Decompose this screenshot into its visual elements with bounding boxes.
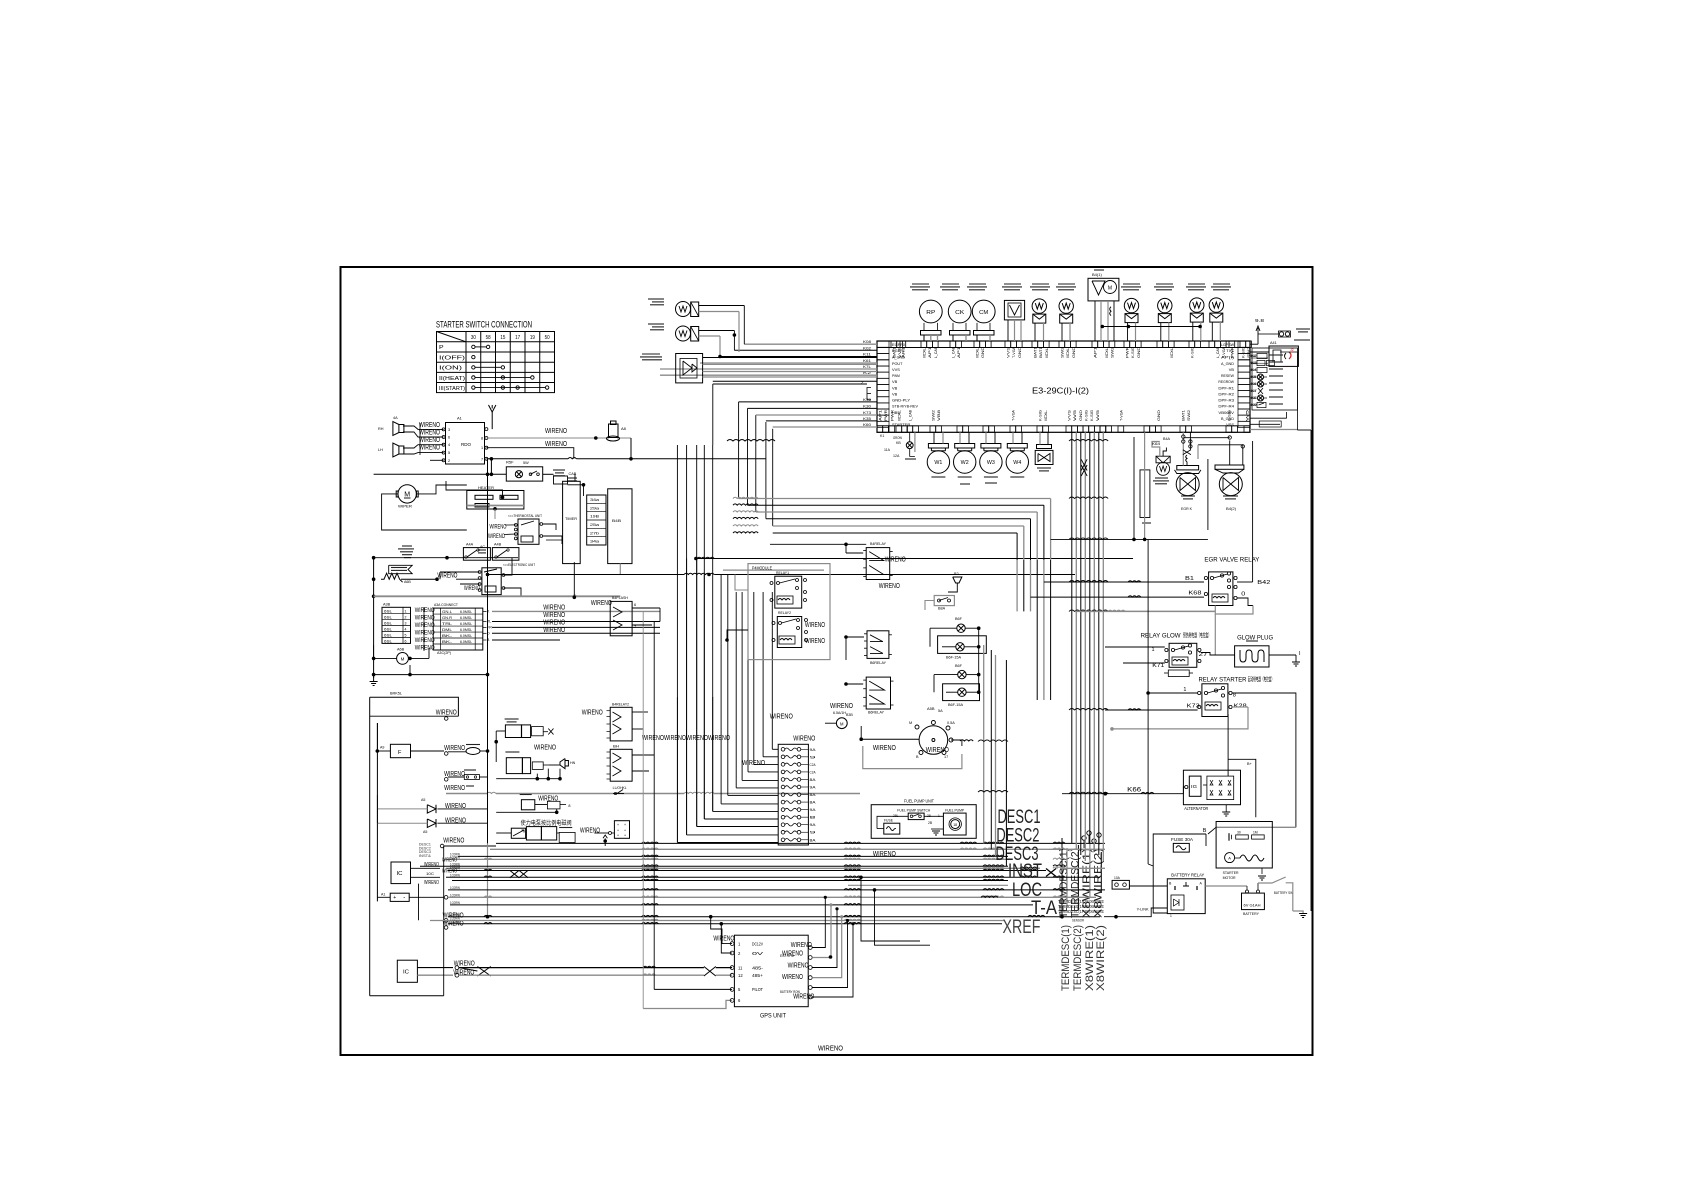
svg-text:WIRENO: WIRENO — [543, 625, 565, 634]
thermistor T3 — [1124, 298, 1138, 312]
svg-text:RELAY2: RELAY2 — [778, 611, 791, 615]
IC box 1 — [391, 862, 411, 884]
resistor zigzag — [381, 573, 403, 582]
svg-text:AP1: AP1 — [957, 347, 961, 358]
horn unit 2 — [506, 758, 522, 774]
svg-text:A3B: A3B — [383, 603, 391, 607]
svg-text:WIRENO: WIRENO — [582, 710, 603, 717]
injector labels — [931, 476, 945, 478]
connector table A — [382, 607, 411, 643]
dpf temp sensor 2 — [676, 326, 691, 341]
svg-text:WIRENO: WIRENO — [415, 645, 435, 652]
cluster bumps — [1053, 842, 1065, 843]
svg-text:CM: CM — [979, 310, 988, 316]
svg-text:10A: 10A — [1114, 876, 1121, 880]
svg-text:WIRENO: WIRENO — [885, 557, 906, 564]
egr narrow box — [1140, 470, 1150, 518]
ECU E3-29C — [877, 341, 1250, 432]
svg-text:WIRENO: WIRENO — [445, 803, 466, 810]
module relay 2 — [777, 617, 801, 648]
relay starter box — [1202, 684, 1228, 717]
svg-text:0: 0 — [1241, 592, 1245, 598]
room lamp feed wire — [374, 473, 507, 475]
gray feeder link — [723, 569, 824, 571]
thermo unit — [518, 519, 539, 544]
svg-text:25a: 25a — [590, 523, 600, 527]
svg-text:AP1: AP1 — [928, 347, 932, 358]
svg-text:WIRENO: WIRENO — [464, 586, 480, 592]
svg-text:ALTERNATOR: ALTERNATOR — [1184, 806, 1208, 811]
svg-text:HEATER: HEATER — [478, 485, 494, 490]
svg-text:WIRENO: WIRENO — [591, 600, 612, 607]
svg-text:STARTER: STARTER — [892, 422, 910, 427]
svg-text:VB: VB — [892, 379, 898, 384]
svg-text:WIRENO: WIRENO — [793, 994, 814, 1001]
speaker wires — [403, 426, 444, 429]
svg-text:6.0MSL: 6.0MSL — [460, 616, 472, 620]
module frame P4 — [748, 564, 830, 660]
battery small — [390, 893, 409, 901]
svg-text:K73: K73 — [863, 410, 872, 415]
svg-text:K71: K71 — [1152, 663, 1164, 669]
throttle valve wires — [1229, 440, 1231, 465]
speaker SP1 — [399, 425, 404, 433]
left rail upper — [373, 558, 375, 681]
svg-text:T-VGA: T-VGA — [1012, 346, 1016, 358]
svg-text:GND: GND — [981, 346, 985, 358]
ground 681 — [373, 675, 375, 678]
svg-text:A: A — [1228, 856, 1231, 861]
svg-text:6: 6 — [634, 603, 636, 607]
svg-text:17: 17 — [944, 755, 948, 759]
svg-text:B6F-15A: B6F-15A — [948, 703, 963, 707]
svg-text:GND: GND — [1079, 409, 1083, 421]
svg-text:GND: GND — [1072, 346, 1076, 358]
svg-text:BAT1: BAT1 — [1039, 347, 1043, 358]
svg-text:C2A: C2A — [810, 770, 817, 774]
svg-text:FUSE: FUSE — [884, 819, 893, 823]
diagnostic connector — [1269, 346, 1298, 366]
svg-text:+: + — [624, 823, 626, 827]
svg-text:<==ELECTRONIC UNIT: <==ELECTRONIC UNIT — [503, 563, 536, 567]
mid verticals — [676, 697, 678, 842]
svg-text:WIRENO: WIRENO — [873, 743, 896, 752]
svg-text:4A: 4A — [393, 416, 398, 420]
svg-text:AP1: AP1 — [878, 410, 882, 421]
svg-text:C2A: C2A — [810, 763, 817, 767]
svg-text:29a: 29a — [590, 506, 600, 510]
svg-text:WIRENO: WIRENO — [770, 712, 793, 721]
svg-text:W5: W5 — [1096, 410, 1100, 421]
svg-text:WIRENO: WIRENO — [490, 524, 507, 531]
svg-text:WIRENO: WIRENO — [415, 630, 435, 637]
svg-text:RP: RP — [926, 310, 935, 316]
svg-text:A3A CONNECT: A3A CONNECT — [434, 603, 459, 607]
flasher relay — [610, 601, 632, 635]
svg-text:WIRENO: WIRENO — [424, 880, 439, 886]
relay glow coil bottom — [1168, 670, 1189, 677]
svg-text:A4A: A4A — [466, 543, 474, 547]
svg-text:TRL: TRL — [442, 622, 452, 626]
xx mark ic2 — [477, 967, 490, 977]
cluster dots row — [536, 777, 540, 781]
cluster rings — [1082, 836, 1086, 840]
svg-text:WIRENO: WIRENO — [442, 869, 457, 875]
timer cells — [587, 495, 606, 545]
svg-text:GROW: GROW — [893, 436, 903, 440]
svg-text:WIRENO: WIRENO — [782, 974, 803, 981]
svg-text:P4MODULE: P4MODULE — [752, 566, 772, 571]
svg-text:K9: K9 — [1251, 403, 1257, 407]
svg-text:PWR: PWR — [884, 409, 888, 421]
bus 558 — [694, 557, 698, 561]
svg-text:8: 8 — [568, 804, 570, 808]
svg-text:58: 58 — [486, 335, 491, 341]
svg-text:17: 17 — [515, 335, 520, 341]
xx gps — [704, 967, 716, 977]
svg-text:GND: GND — [1137, 346, 1141, 358]
svg-text:L_CAB: L_CAB — [951, 346, 955, 358]
timer box 1 — [563, 481, 581, 563]
svg-text:EGR K: EGR K — [1181, 507, 1192, 511]
dpf diff pressure sensor — [676, 354, 703, 383]
svg-text:KB: KB — [896, 441, 901, 445]
lamp 628 — [957, 624, 965, 632]
start switch small — [934, 596, 954, 606]
svg-text:K-SIG: K-SIG — [1227, 410, 1231, 421]
svg-text:WIRENO: WIRENO — [488, 533, 505, 540]
svg-text:1M: 1M — [1253, 831, 1258, 835]
svg-text:RELAY STARTER: RELAY STARTER — [1199, 678, 1248, 684]
gps right pins — [808, 946, 812, 950]
horn wires — [496, 730, 505, 732]
wiper wires — [382, 494, 467, 530]
svg-text:TERMDESC(1P2B)X8WIRE: TERMDESC(1P2B)X8WIRE — [1058, 909, 1104, 914]
svg-text:VB: VB — [892, 385, 898, 390]
stair right drops — [848, 884, 1008, 886]
svg-text:B4FLASH: B4FLASH — [612, 596, 628, 600]
svg-text:8A: 8A — [810, 793, 817, 797]
svg-text:VB: VB — [1229, 367, 1235, 372]
step wire 697 — [370, 697, 459, 716]
svg-text:8A: 8A — [810, 801, 817, 805]
wavy crossover on h1 — [733, 497, 758, 498]
svg-text:K-SIG: K-SIG — [1131, 347, 1135, 358]
diag wires — [1250, 351, 1269, 353]
svg-text:SW2: SW2 — [931, 410, 935, 421]
svg-text:9: 9 — [810, 831, 816, 835]
egr valve relay — [1209, 572, 1233, 606]
heater resistor unit — [467, 491, 524, 510]
svg-text:B6RELAY: B6RELAY — [868, 711, 884, 715]
ign frame — [863, 746, 962, 769]
svg-text:WIRENO: WIRENO — [805, 622, 825, 629]
svg-text:6: 6 — [448, 436, 450, 440]
svg-text:K60: K60 — [863, 422, 872, 427]
svg-text:K73: K73 — [1187, 704, 1200, 710]
relay B4 upper — [866, 548, 890, 580]
fuse box pair — [463, 548, 490, 561]
svg-text:A8: A8 — [621, 426, 627, 431]
svg-text:IDL: IDL — [975, 347, 979, 358]
svg-text:FUEL PUMP SWITCH: FUEL PUMP SWITCH — [897, 808, 930, 813]
svg-text:IDL: IDL — [1170, 347, 1174, 358]
svg-text:6V G1AH: 6V G1AH — [1244, 904, 1261, 908]
svg-text:+: + — [617, 834, 619, 838]
bus966 to gps — [459, 967, 704, 969]
prop solenoid — [511, 828, 525, 838]
lamp box 647 — [938, 636, 987, 654]
svg-text:WIRENO: WIRENO — [424, 862, 439, 868]
wavy crossover under ecu — [727, 440, 775, 442]
svg-text:W5: W5 — [1245, 410, 1249, 421]
ign wires — [861, 738, 919, 740]
svg-text:M: M — [909, 721, 912, 725]
svg-text:DPF-R1: DPF-R1 — [1218, 385, 1234, 390]
svg-text:T-VGA: T-VGA — [1222, 346, 1226, 358]
svg-text:1: 1 — [405, 609, 407, 613]
svg-text:WIRENO: WIRENO — [713, 936, 734, 943]
svg-text:DPF-R2: DPF-R2 — [1218, 391, 1234, 396]
ignition switch — [919, 726, 948, 755]
svg-text:E3-29C(I)-I(2): E3-29C(I)-I(2) — [1032, 387, 1089, 396]
svg-text:0.5A: 0.5A — [947, 721, 955, 725]
svg-text:1C0RW: 1C0RW — [450, 901, 460, 905]
glow plug — [1235, 646, 1269, 667]
svg-text:WIRENO: WIRENO — [415, 637, 435, 644]
timer box 2 — [608, 489, 632, 564]
svg-text:WIRENO: WIRENO — [534, 743, 556, 752]
speaker SP2 — [399, 446, 404, 454]
svg-text:BAT1: BAT1 — [892, 347, 896, 358]
svg-text:预热继电器（电控盒）: 预热继电器（电控盒） — [1183, 632, 1211, 640]
svg-text:A_GND: A_GND — [1221, 361, 1234, 366]
svg-text:K35: K35 — [863, 416, 872, 421]
svg-text:5A: 5A — [938, 709, 943, 713]
gray wavy 843 left — [495, 833, 497, 843]
svg-text:12A: 12A — [893, 454, 900, 458]
svg-text:B: B — [1203, 828, 1207, 834]
svg-text:B6F: B6F — [955, 617, 963, 621]
svg-text:6.0MSL: 6.0MSL — [460, 628, 472, 632]
svg-text:DML: DML — [442, 628, 452, 632]
wire WIRENO y438 — [486, 437, 609, 439]
left tall loop — [369, 697, 371, 996]
cam sensor box — [1004, 300, 1024, 320]
ecu right pin col — [1238, 341, 1250, 347]
diode 2 — [427, 819, 436, 827]
svg-text:6.0MSL: 6.0MSL — [460, 610, 472, 614]
svg-text:INST: INST — [1008, 861, 1042, 882]
svg-text:GND: GND — [1018, 346, 1022, 358]
svg-text:K64: K64 — [1152, 442, 1160, 446]
svg-text:2: 2 — [448, 459, 450, 463]
svg-text:BRK5L: BRK5L — [390, 692, 402, 696]
svg-text:WIRENO: WIRENO — [444, 785, 465, 792]
table B out wires — [483, 610, 487, 612]
svg-text:LGPSW: LGPSW — [1221, 342, 1234, 347]
svg-text:B1: B1 — [1185, 576, 1194, 582]
svg-text:IDL: IDL — [1044, 410, 1048, 421]
svg-text:K6: K6 — [1251, 382, 1257, 386]
sensor labels row — [912, 283, 929, 285]
bus bumps at desc feeders — [983, 842, 1004, 843]
dpf sensor 1 wires — [699, 305, 745, 307]
svg-text:K-SIG: K-SIG — [1241, 347, 1245, 358]
module feed wires — [735, 575, 748, 591]
right long rail — [1310, 430, 1312, 911]
svg-text:K61: K61 — [863, 358, 872, 363]
sensor CM — [972, 300, 995, 323]
cluster verticals — [1061, 838, 1063, 917]
svg-text:IDL: IDL — [897, 410, 901, 421]
svg-text:WIRENO: WIRENO — [442, 858, 457, 864]
svg-text:K-SIG: K-SIG — [1090, 410, 1094, 421]
svg-text:K02: K02 — [863, 345, 872, 350]
svg-text:<==THERMOSTAL UNIT: <==THERMOSTAL UNIT — [508, 514, 543, 518]
svg-text:WIRENO: WIRENO — [926, 745, 949, 754]
bus rows — [458, 855, 1008, 857]
svg-text:WIRENO: WIRENO — [793, 733, 815, 742]
svg-text:STARTER SWITCH CONNECTION: STARTER SWITCH CONNECTION — [436, 320, 532, 331]
svg-text:1: 1 — [1152, 647, 1155, 653]
svg-text:27b: 27b — [590, 531, 599, 535]
svg-text:III(START): III(START) — [439, 386, 465, 392]
sensor ground bus — [1102, 326, 1200, 328]
vert from radio pin1 to room lamp line — [490, 459, 492, 475]
fuel sender outer box — [871, 805, 976, 839]
svg-text:K11: K11 — [863, 352, 872, 357]
svg-text:K08: K08 — [863, 339, 872, 344]
svg-text:WIRENO: WIRENO — [782, 951, 803, 958]
prop solenoid wires — [496, 832, 511, 834]
svg-text:4: 4 — [405, 627, 407, 631]
svg-text:34a: 34a — [590, 540, 600, 544]
svg-text:6SL: 6SL — [384, 609, 392, 613]
svg-text:M: M — [401, 657, 405, 662]
svg-text:TERMDESC(1): TERMDESC(1) — [1060, 925, 1072, 991]
electronic unit relay — [482, 568, 501, 595]
svg-text:WIRENO: WIRENO — [818, 1044, 843, 1053]
svg-text:1: 1 — [1183, 687, 1186, 693]
main vertical bundle — [1071, 432, 1073, 843]
svg-text:GND-PLY: GND-PLY — [892, 398, 911, 403]
svg-text:WIRENO: WIRENO — [444, 745, 465, 752]
svg-text:RDO: RDO — [461, 442, 471, 447]
splice connector block — [778, 744, 808, 845]
bus 843 849 — [496, 842, 1063, 844]
egr bottom wire — [1051, 538, 1208, 540]
egr gray verticals down — [1144, 432, 1146, 539]
room lamp box — [506, 467, 542, 481]
svg-text:VVS: VVS — [1006, 346, 1010, 358]
ecu bottom pin row — [877, 425, 1250, 427]
starter ground — [1261, 868, 1263, 874]
svg-text:MOTOR: MOTOR — [1223, 875, 1236, 880]
thermistor T5 — [1190, 298, 1204, 312]
svg-text:X8WIRE(2): X8WIRE(2) — [1095, 925, 1107, 991]
svg-text:5W: 5W — [523, 461, 529, 465]
thermistor T4 — [1158, 298, 1172, 312]
svg-text:2: 2 — [405, 615, 407, 619]
svg-text:6SL: 6SL — [384, 615, 392, 619]
svg-text:W4: W4 — [1013, 460, 1021, 466]
fan box — [1088, 278, 1119, 301]
svg-text:WIRENO: WIRENO — [437, 573, 457, 580]
svg-text:GND: GND — [1157, 409, 1161, 421]
gray bus 789 — [446, 793, 487, 795]
svg-text:STB-R/YB-REV: STB-R/YB-REV — [892, 404, 918, 409]
small fuse 2p — [1112, 880, 1129, 889]
svg-text:K68: K68 — [1188, 591, 1201, 597]
loop bundle left — [739, 498, 1051, 500]
svg-text:SW2: SW2 — [1187, 410, 1191, 421]
svg-text:A1: A1 — [457, 416, 463, 421]
svg-text:6SL: 6SL — [384, 633, 392, 637]
svg-text:DC12V: DC12V — [752, 941, 763, 946]
small motor bottom — [397, 653, 409, 665]
svg-text:A9: A9 — [380, 746, 384, 750]
svg-text:B4RELAY2: B4RELAY2 — [612, 703, 629, 707]
svg-text:30: 30 — [1237, 831, 1241, 835]
svg-text:B4A: B4A — [1163, 437, 1171, 441]
svg-text:6SL: 6SL — [384, 621, 392, 625]
relay 630 — [867, 631, 889, 659]
thermistor T6 — [1209, 298, 1223, 312]
svg-text:10C: 10C — [426, 871, 434, 876]
svg-text:L_CAB: L_CAB — [908, 409, 912, 421]
solenoid valve — [1035, 450, 1053, 464]
svg-text:6SL: 6SL — [384, 627, 392, 631]
svg-text:B4RELAY: B4RELAY — [870, 542, 886, 546]
svg-text:15: 15 — [500, 335, 505, 341]
battery sw ground — [1293, 911, 1303, 913]
motor small 723 — [836, 718, 847, 729]
ground left rail — [370, 681, 378, 683]
wavy on desc feeders — [960, 740, 973, 741]
svg-text:3: 3 — [448, 428, 450, 432]
svg-text:W2: W2 — [961, 460, 969, 466]
egr x spring — [1183, 450, 1191, 455]
svg-text:A41: A41 — [1270, 341, 1277, 345]
svg-text:REGROW: REGROW — [1218, 379, 1234, 384]
svg-text:WIRENO: WIRENO — [805, 638, 825, 645]
sensor RP — [919, 300, 942, 323]
svg-text:9A: 9A — [810, 823, 817, 827]
ecu left wires — [744, 343, 877, 345]
svg-text:DPF-R3: DPF-R3 — [1218, 398, 1234, 403]
svg-text:IC: IC — [403, 970, 409, 976]
svg-text:WIRENO: WIRENO — [788, 963, 809, 970]
svg-text:A3C(2P): A3C(2P) — [437, 651, 451, 655]
svg-text:RH: RH — [378, 427, 384, 431]
svg-text:-: - — [403, 895, 405, 901]
svg-text:WIRENO: WIRENO — [443, 838, 464, 845]
flag banner — [389, 565, 413, 573]
amp plug — [609, 424, 619, 438]
svg-text:AP1: AP1 — [1093, 347, 1097, 358]
battery relay box — [1167, 879, 1205, 914]
alternator IG — [1189, 776, 1201, 796]
diode 1 — [427, 805, 436, 813]
svg-text:PWM: PWM — [892, 373, 900, 378]
svg-text:1C0RW: 1C0RW — [450, 886, 460, 890]
relay flasher2 — [610, 707, 632, 741]
thermistor T2 — [1059, 299, 1073, 313]
svg-text:485+: 485+ — [752, 973, 764, 978]
svg-text:8: 8 — [810, 816, 816, 820]
svg-text:IDL: IDL — [1105, 347, 1109, 358]
